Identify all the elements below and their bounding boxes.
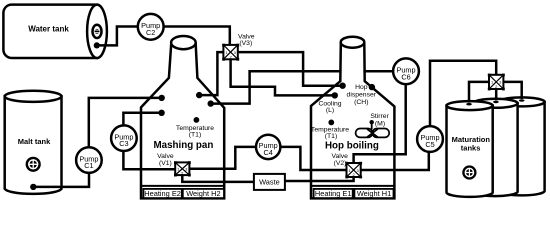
malt tank	[5, 91, 62, 194]
node: mashing pan dot D2	[158, 110, 164, 116]
pump C4	[256, 135, 280, 159]
wire pump C4 to valve V2 left	[280, 147, 346, 170]
node: mashing pan temperature sensor dot	[194, 117, 200, 123]
pump C6	[393, 58, 419, 84]
svg-text:(T1): (T1)	[325, 133, 337, 140]
svg-text:C6: C6	[401, 72, 410, 81]
node: hop pan temperature sensor dot	[328, 120, 334, 126]
svg-text:C1: C1	[84, 161, 93, 170]
svg-text:Weight H1: Weight H1	[357, 189, 391, 198]
pump C1	[76, 147, 102, 173]
node: hop pan dot C hop dispenser	[369, 84, 375, 90]
svg-text:(M): (M)	[375, 121, 385, 128]
pump C3	[111, 125, 137, 151]
node: tank 1 inlet	[466, 103, 472, 106]
svg-text:C4: C4	[264, 148, 273, 157]
svg-text:(T1): (T1)	[189, 132, 201, 139]
svg-text:(L): (L)	[326, 107, 334, 114]
pump C5	[417, 126, 443, 152]
node: hop pan dot A	[339, 83, 345, 89]
svg-text:(V3): (V3)	[239, 40, 252, 47]
svg-text:Heating E2: Heating E2	[144, 189, 181, 198]
wire valve V1 right to pump C4	[189, 147, 256, 169]
wire pump C6 bottom to valve V2 top	[354, 84, 406, 163]
maturation tank 3	[499, 97, 545, 195]
wire pump C3 top to mashing pan dot D2	[123, 113, 161, 126]
valve V3	[222, 44, 239, 61]
waste box	[254, 174, 285, 190]
hop boiling vessel	[311, 37, 394, 199]
node: mashing pan dot D1	[159, 95, 165, 101]
node: hop pan dot B cooling	[332, 92, 338, 98]
water tank	[3, 5, 106, 58]
svg-text:Hop: Hop	[355, 84, 368, 91]
svg-text:Stirrer: Stirrer	[370, 113, 389, 120]
wire waste box to valve V2 bottom	[285, 177, 354, 181]
node: water tank outlet dot	[94, 42, 100, 48]
valve V4 top right	[488, 74, 505, 91]
svg-text:(V2): (V2)	[334, 160, 347, 167]
node: tank 3 inlet	[519, 99, 525, 102]
svg-text:C3: C3	[119, 139, 128, 148]
svg-text:Waste: Waste	[259, 177, 280, 186]
wire pump C2 to valve V3	[164, 27, 230, 45]
wire pump C1 to mashing pan dot D1	[89, 98, 162, 147]
wire pump C5 top to valve V4	[430, 61, 496, 127]
svg-text:dispenser: dispenser	[347, 91, 377, 98]
wire hop pan neck right to pump C6	[365, 70, 394, 73]
wire valve V4 right to tank 3	[503, 82, 521, 98]
wire mashing pan dot D4 to hop pan neck	[211, 71, 341, 103]
node: tank 2 inlet	[493, 101, 499, 104]
mashing pan vessel	[141, 36, 224, 198]
svg-text:tanks: tanks	[461, 143, 481, 152]
wire valve V3 left to mashing pan dot D3	[199, 52, 223, 95]
svg-text:C5: C5	[425, 140, 434, 149]
wire valve V3 bottom to hop pan dot B (cooling)	[231, 59, 335, 95]
svg-text:Weight H2: Weight H2	[186, 189, 220, 198]
svg-text:Mashing pan: Mashing pan	[153, 140, 213, 151]
node: malt tank outlet dot	[30, 184, 36, 190]
svg-text:C2: C2	[146, 28, 155, 37]
wire water tank to pump C2	[97, 27, 138, 46]
svg-text:Water tank: Water tank	[28, 24, 69, 33]
valve V2	[345, 162, 362, 179]
pump C2	[138, 14, 164, 40]
wire pump C3 bottom to valve V1 left	[123, 151, 175, 169]
stirrer M symbol	[356, 120, 390, 137]
svg-text:Hop boiling: Hop boiling	[325, 141, 379, 152]
wire valve V1 bottom to waste	[182, 175, 254, 182]
svg-text:Malt tank: Malt tank	[18, 137, 51, 146]
wire valve V3 right to hop pan dot A	[238, 52, 343, 86]
valve V1	[174, 161, 191, 176]
wire malt tank to pump C1	[33, 173, 89, 187]
wire valve V4 left to tank 1	[469, 82, 489, 102]
maturation tank 2	[473, 99, 518, 196]
node: mashing pan dot D3	[196, 92, 202, 98]
maturation tank 1	[447, 101, 493, 197]
node: mashing pan dot D4	[208, 100, 214, 106]
svg-text:(CH): (CH)	[354, 99, 368, 106]
svg-text:(V1): (V1)	[159, 160, 172, 167]
valve pin digits	[177, 50, 502, 177]
wire valve V2 right to pump C5	[361, 152, 429, 170]
svg-text:Heating E1: Heating E1	[315, 189, 352, 198]
wire valve V4 bottom to tank 2	[495, 89, 498, 99]
